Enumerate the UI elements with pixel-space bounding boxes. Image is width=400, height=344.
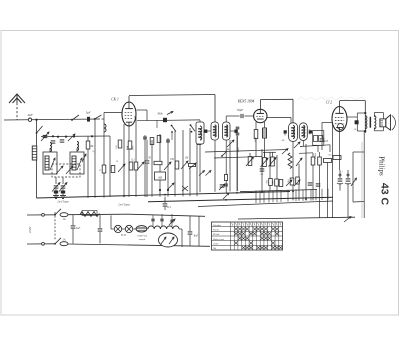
svg-text:1A: 1A [63, 239, 66, 242]
resistor R5 [134, 162, 138, 170]
wire [49, 148, 51, 152]
potentiometer arrow [164, 162, 171, 170]
potentiometer P1 [246, 157, 254, 167]
coil IF1 secondary [223, 122, 231, 193]
wire: CL2 cathode [332, 124, 334, 218]
wire: RF section rail [41, 135, 110, 138]
wire: antenna coil branch [36, 120, 38, 198]
resistor R7 [175, 161, 179, 169]
power line right [128, 214, 205, 216]
wire: to IF2 [292, 99, 294, 123]
wire: rail mid-right [198, 201, 333, 207]
earth terminal circle [27, 113, 33, 121]
resistor R13 [324, 159, 332, 218]
wire [292, 141, 294, 200]
svg-text:Philips: Philips [378, 156, 386, 176]
lamp LA2 [122, 225, 136, 232]
wire: AVC line [205, 150, 288, 153]
value label [185, 157, 189, 160]
tuning capacitor (ganged) [52, 164, 80, 177]
label 43 C [379, 183, 391, 206]
wire: mains bottom [68, 244, 210, 246]
wire: grid line CK1 [102, 113, 123, 134]
resistor R11 [311, 153, 315, 200]
resistor R10 cathode [254, 130, 258, 157]
junction arrow on rail [344, 217, 351, 223]
svg-text:1000: 1000 [237, 147, 240, 153]
wire [261, 149, 263, 191]
wire drop [99, 214, 101, 228]
wire: rail top-right [240, 190, 317, 192]
junction arrow [351, 178, 357, 186]
capacitor C21 [143, 137, 147, 139]
wire [295, 190, 297, 202]
wire stub2 [299, 152, 313, 155]
wire: antenna input line [4, 119, 100, 120]
mains switch (ganged, dashed) [54, 209, 61, 245]
capacitor C18 [98, 229, 103, 244]
resistor R23 [128, 141, 134, 150]
transformer T1 primary [357, 112, 367, 132]
small parts row [308, 183, 321, 186]
value label [254, 137, 257, 143]
label CK1 [111, 98, 119, 102]
resistor R8 [189, 163, 197, 169]
barretter resistor (zigzag) [80, 212, 100, 217]
coil L4 small [104, 124, 106, 132]
value label [148, 157, 151, 160]
trimmer C2 [41, 132, 49, 141]
wire [229, 140, 231, 191]
svg-text:REN5 1894: REN5 1894 [237, 100, 255, 104]
IF1 terminal right [230, 130, 238, 133]
wire [159, 134, 161, 197]
resistor R15 [269, 179, 273, 186]
capacitor C23 [223, 184, 229, 199]
wire [268, 190, 270, 202]
coil IF1 primary [211, 122, 219, 192]
small arrows row [286, 180, 300, 186]
resistor R12 [318, 152, 322, 218]
wire [269, 152, 271, 191]
arrow [82, 154, 86, 162]
wire [302, 189, 304, 200]
label 220V [28, 226, 32, 234]
value label [200, 136, 203, 140]
ground [53, 193, 59, 199]
svg-text:360e: 360e [157, 113, 163, 116]
wire [196, 130, 198, 196]
wire [298, 164, 300, 201]
voltage table row labels [213, 224, 225, 250]
wire [236, 135, 238, 191]
volume resistor zigzag [288, 153, 292, 169]
antenna lead-in wire (dashed) [16, 103, 18, 120]
wire [62, 177, 64, 192]
heater tap capacitor [151, 215, 154, 226]
voltage table X marks [234, 227, 282, 249]
mains terminal bottom [27, 242, 55, 245]
svg-text:1M: 1M [90, 145, 94, 148]
value label [272, 180, 275, 184]
junction dots row [159, 189, 169, 191]
capacitor C1 antenna series [86, 111, 91, 122]
potentiometer arrow [118, 164, 125, 172]
wire [134, 117, 136, 197]
antenna symbol [9, 94, 25, 103]
wire [347, 116, 358, 118]
coil L3 [77, 142, 79, 151]
bus junction dots [123, 191, 307, 201]
wire [287, 190, 289, 202]
svg-text:20000: 20000 [314, 152, 317, 159]
schematic right border line [361, 142, 363, 218]
svg-text:4mF: 4mF [27, 113, 33, 117]
ground [60, 193, 66, 199]
value label [287, 179, 290, 183]
wire [276, 190, 278, 202]
coil L1 antenna (hatched) [32, 146, 37, 160]
wire [321, 189, 323, 200]
voltage table frame [212, 222, 283, 250]
voltage table grid [212, 222, 283, 250]
coil L2 [50, 143, 52, 152]
resistor R19 [150, 138, 154, 145]
value label [131, 159, 135, 162]
wire: REN5 screen to IF2 [267, 118, 291, 123]
coil IF2 primary [284, 123, 298, 142]
trimmer C3 [68, 134, 75, 141]
wire [339, 132, 341, 171]
wire: output B+ drop [363, 131, 365, 218]
wire [94, 119, 96, 198]
coupling block [313, 131, 324, 146]
wire: REN5 cathode elements [256, 122, 265, 129]
value label [237, 147, 240, 153]
switch S2 on antenna line [71, 115, 79, 121]
potentiometer arrow [137, 162, 144, 170]
wire [128, 150, 130, 197]
potentiometer arrow [167, 183, 174, 190]
value label [341, 171, 342, 174]
wire: rail B+ [148, 197, 333, 202]
wire: CK1 anode to top rail [129, 95, 215, 103]
switch S4 [157, 120, 176, 140]
tube REN5 1894 [254, 109, 267, 122]
loudspeaker [380, 115, 396, 130]
wire [174, 130, 176, 197]
wire [189, 128, 191, 196]
scan crease (faint) [297, 97, 366, 100]
label REN5 1894 [237, 100, 255, 104]
resistor R22 [116, 140, 122, 149]
svg-text:CK 1: CK 1 [111, 98, 119, 102]
capacitor C14 tone [320, 131, 329, 150]
wire [103, 133, 105, 198]
heater tap capacitor [169, 214, 175, 226]
resistor R17 [279, 177, 299, 187]
wire [76, 148, 78, 152]
capacitor C9 [145, 140, 150, 197]
capacitor C8 [127, 147, 132, 149]
fuse F1 [60, 213, 68, 221]
detector diode arrow [294, 142, 300, 148]
resistor R14 grid stopper [333, 156, 341, 160]
capacitor C5 [51, 141, 56, 143]
resistor R6 [154, 161, 162, 164]
transformer T1 core [370, 117, 372, 128]
svg-text:0,1: 0,1 [261, 173, 264, 176]
regulator tube oval [159, 233, 178, 247]
wire [280, 190, 282, 202]
wire: CL2 anode loop [340, 101, 366, 134]
electrolytic C16 [345, 170, 351, 218]
heater tap capacitor [160, 214, 163, 226]
hatch box resistor [82, 211, 97, 216]
resistor R21 [197, 138, 201, 145]
svg-text:4n5: 4n5 [324, 140, 329, 143]
coil IF2 secondary [299, 123, 311, 141]
svg-text:2n-Chass: 2n-Chass [57, 200, 69, 204]
svg-text:0,1: 0,1 [93, 150, 96, 153]
resistor R24 [224, 175, 227, 181]
wire right drop [198, 216, 200, 246]
label 20000 [314, 152, 317, 159]
value label [170, 158, 175, 161]
wire: top rail drop [214, 95, 216, 123]
switch S3 to grid [94, 115, 102, 120]
rail junction dots [57, 135, 93, 138]
wire [182, 130, 184, 196]
resistor R1 [86, 141, 94, 149]
cross mark [182, 186, 188, 191]
value label [227, 148, 230, 151]
svg-text:8uF: 8uF [194, 235, 199, 238]
wire [259, 191, 261, 203]
label Philips [378, 156, 386, 176]
svg-text:Wafer case: Wafer case [213, 238, 225, 241]
label lamp [121, 234, 127, 237]
wire: rail bottom-right [238, 217, 355, 219]
svg-text:Cl 2: Cl 2 [326, 101, 332, 105]
trimmer arrow [227, 140, 234, 147]
resistor R16 [275, 179, 279, 186]
value label [93, 150, 96, 153]
svg-text:1A: 1A [63, 218, 66, 221]
mains terminal top [27, 213, 55, 216]
wire: osc grid line [137, 119, 200, 122]
switch S5 [190, 124, 195, 132]
transformer T1 secondary [374, 116, 376, 129]
wire stub [300, 145, 330, 152]
value label [282, 139, 285, 142]
trimmer stack [236, 127, 240, 191]
svg-text:2n-Chass: 2n-Chass [118, 203, 130, 207]
voltage table header marks [232, 223, 281, 225]
wire [305, 144, 307, 201]
wire [55, 177, 57, 192]
value label [116, 160, 119, 163]
potentiometer wiper [296, 158, 302, 166]
wire: secondary loop [374, 113, 383, 131]
wire [272, 190, 274, 202]
capacitor C22 [166, 140, 170, 142]
wire: CK1 cathode down [123, 124, 125, 197]
svg-text:M-Volt: M-Volt [213, 233, 220, 236]
svg-text:2uF: 2uF [76, 227, 81, 230]
IF2 terminal left [284, 130, 287, 133]
svg-text:2000: 2000 [254, 137, 257, 143]
band filter box 1 [43, 152, 57, 174]
capacitor C4 [60, 140, 65, 142]
junction arrow [206, 171, 212, 176]
capacitor C11 grid REN5 [226, 108, 254, 122]
resistor block AB [155, 172, 166, 180]
label: bus [57, 200, 69, 204]
capacitor C12 [260, 169, 265, 171]
svg-text:5pF: 5pF [86, 111, 91, 115]
wire [322, 123, 333, 132]
capacitor C13 [219, 184, 225, 190]
switch S6 [221, 151, 227, 157]
value label [354, 128, 357, 131]
wire [87, 136, 89, 198]
wire [302, 141, 304, 147]
wire: screen stub [137, 110, 148, 121]
wire [310, 189, 312, 200]
trimmer C6 [52, 183, 60, 194]
label CL2 [326, 101, 332, 105]
IF1 terminal left [204, 130, 211, 133]
capacitor C17 mains [71, 215, 81, 244]
wire [315, 189, 317, 200]
svg-text:Punkt: Punkt [213, 229, 219, 232]
wire [167, 138, 169, 197]
wire: AGC line 2 [214, 157, 262, 159]
junction arrow [282, 149, 288, 155]
svg-text:U 5%: U 5% [213, 244, 218, 246]
coil L5 (hatched) [263, 128, 267, 157]
resistor R4 [129, 162, 133, 170]
switch S1 (waveband) [36, 126, 43, 134]
wire [109, 136, 111, 197]
node: antenna junction [35, 119, 37, 121]
svg-text:50pF: 50pF [237, 108, 244, 112]
svg-text:43 C: 43 C [379, 183, 391, 206]
wire: chassis ground bus [37, 192, 291, 199]
wire [327, 189, 329, 200]
lamp LA1 [111, 215, 122, 232]
wire [263, 190, 265, 202]
heater winding bumps [148, 226, 179, 229]
trimmer C7 [59, 183, 67, 194]
value label [261, 173, 264, 176]
wire [128, 126, 130, 145]
capacitor C20 (dark square) [157, 112, 173, 123]
tube CL2 [332, 107, 347, 132]
ballast (oval with hatch) [136, 226, 147, 232]
capacitor loop [355, 113, 359, 131]
wire [255, 191, 257, 203]
capacitor C10 below bus [163, 197, 172, 210]
bypass branch [353, 152, 364, 202]
IF2 terminal right [309, 130, 312, 133]
wire heater right [179, 229, 182, 247]
band filter box 2 [70, 152, 84, 174]
resistor R3 [111, 166, 115, 173]
svg-text:1: 1 [341, 171, 342, 174]
wire: mains top [68, 213, 128, 216]
wire: REN5 anode up/right [260, 99, 293, 109]
potentiometer P3 [269, 157, 277, 167]
svg-text:AB: AB [157, 176, 162, 180]
capacitor C19 8uF [188, 216, 199, 246]
resistor R2 [99, 165, 106, 173]
svg-text:W 32: W 32 [121, 234, 127, 237]
tube CK1 [122, 102, 136, 126]
wire [151, 140, 153, 197]
potentiometer arrow [181, 161, 188, 169]
junction arrow [199, 171, 205, 176]
oscillator coil box [196, 120, 204, 192]
potentiometer P2 [261, 158, 269, 168]
wire: bracket [250, 152, 276, 157]
electrolytic C15 [337, 170, 343, 191]
label ballast [137, 235, 147, 242]
wire [276, 155, 278, 191]
wire [144, 135, 146, 197]
value label [329, 154, 333, 157]
svg-text:Schalter: Schalter [213, 224, 221, 227]
value label [266, 179, 269, 183]
node [52, 135, 54, 137]
svg-text:output: output [139, 238, 146, 241]
fuse F2 [60, 239, 68, 246]
resistor R20 [157, 136, 161, 143]
label: bus2 [118, 203, 130, 207]
